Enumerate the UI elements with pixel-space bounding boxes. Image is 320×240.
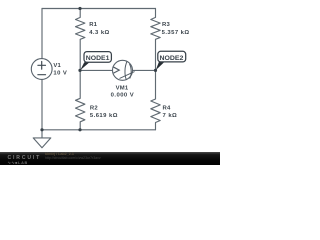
svg-text:R1: R1 <box>89 22 97 28</box>
svg-text:4.3 kΩ: 4.3 kΩ <box>89 30 110 36</box>
svg-text:7 kΩ: 7 kΩ <box>163 113 178 119</box>
svg-text:NODE1: NODE1 <box>86 56 110 62</box>
svg-text:NODE2: NODE2 <box>160 56 185 62</box>
svg-text:5.357 kΩ: 5.357 kΩ <box>162 30 190 36</box>
svg-text:R4: R4 <box>163 106 171 112</box>
svg-text:VM1: VM1 <box>116 85 129 91</box>
svg-text:0.000 V: 0.000 V <box>111 93 134 99</box>
svg-text:10 V: 10 V <box>53 71 67 77</box>
svg-text:R3: R3 <box>162 22 170 28</box>
svg-text:5.619 kΩ: 5.619 kΩ <box>90 113 118 119</box>
svg-text:V1: V1 <box>53 63 61 69</box>
svg-text:R2: R2 <box>90 106 98 112</box>
